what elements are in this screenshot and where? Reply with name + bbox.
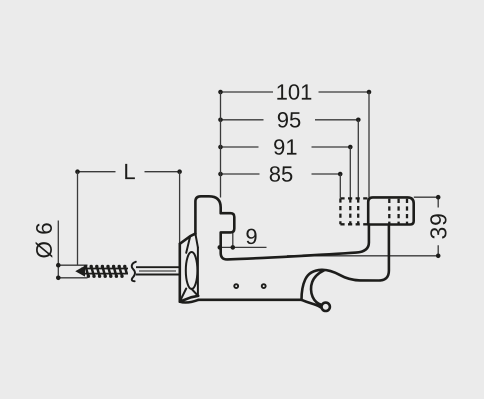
screw shank centerline (139, 270, 176, 272)
hole 1 (234, 284, 238, 288)
dimension 39 label (430, 214, 446, 238)
dimension Dia6 label (36, 223, 53, 257)
hole 2 (262, 284, 266, 288)
screw thread crests bottom (87, 275, 124, 278)
dimension 85 line (218, 172, 342, 177)
extension line left of dims 85-101 (220, 92, 222, 198)
dimension 85 label (270, 166, 293, 182)
dimension 95 line (218, 118, 360, 123)
extension line 101 right (368, 92, 370, 197)
dimension 9 line (218, 233, 267, 250)
extension line L right (to ferrule) (179, 172, 181, 244)
screw tip (76, 267, 84, 276)
knob solid cylinder (368, 197, 414, 224)
dimension 39 line (287, 195, 441, 258)
hidden cylinder dashed top (340, 197, 368, 199)
arm bottom plate edge (199, 298, 302, 301)
hidden cylinder dashed line 95 (357, 198, 359, 224)
hidden cylinder dashed bottom (340, 223, 368, 225)
hidden cylinder dashed left edge (339, 198, 341, 224)
screw shank bottom line (136, 274, 180, 276)
ferrule hex ellipse face (186, 252, 198, 289)
dimension L line (75, 169, 182, 174)
screw thread core lines (81, 269, 128, 274)
dimension 101 line (218, 90, 371, 95)
extension line 91 right (349, 147, 351, 198)
knob thread dashed lines (389, 199, 407, 224)
extension line 85 right (339, 174, 341, 198)
extension line 95 right (357, 120, 359, 198)
screw thread crests top (84, 265, 127, 268)
dimension 101 label (277, 84, 311, 100)
screw threads (86, 266, 127, 276)
extension line L left (to screw tip) (77, 172, 79, 265)
dimension Dia6 line (56, 221, 88, 281)
dimension L label (125, 164, 135, 179)
ferrule hex top facet (180, 234, 196, 244)
ferrule hex facet diagonals (180, 234, 198, 302)
hidden cylinder dashed line 91 (349, 198, 351, 224)
ferrule hex bottom facet (180, 296, 198, 302)
ferrule hex right edge (197, 248, 199, 296)
hook inner curl (311, 270, 324, 304)
dimension 91 line (218, 145, 352, 150)
body stem and bump and arm top outline (195, 196, 369, 259)
hook outer crest and neck right outline (302, 224, 389, 299)
hook tip ball (322, 303, 330, 311)
dimension 9 label (246, 229, 256, 245)
dimension 95 label (278, 112, 301, 128)
screw break squiggle (132, 262, 136, 281)
dimension 91 label (274, 139, 296, 155)
ferrule hex bottom lip (180, 300, 199, 303)
ferrule hex left edge (179, 244, 182, 302)
screw shank top line (136, 266, 180, 268)
hook underside (302, 300, 322, 308)
